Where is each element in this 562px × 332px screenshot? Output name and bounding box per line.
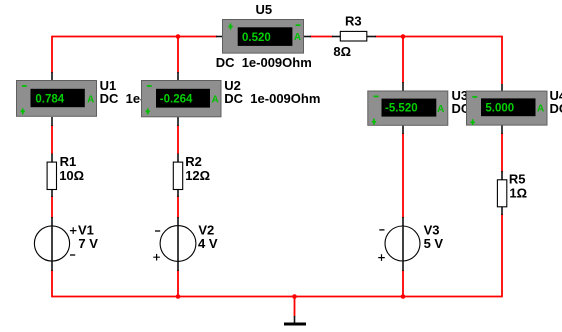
U1 pin lead bottom [51, 117, 53, 126]
V1 minus sign [70, 254, 75, 256]
R1 body [47, 162, 56, 189]
U5 pin lead left [216, 36, 223, 38]
svg-text:8Ω: 8Ω [333, 44, 351, 59]
wire R3 right to node B and corner [375, 36, 502, 38]
V2 pin lead bottom [177, 261, 179, 271]
U4 pin lead top [501, 84, 503, 92]
V1 pin lead top [51, 217, 53, 226]
ammeter U2 [142, 72, 321, 126]
U5 minus mark [296, 24, 301, 26]
svg-text:-0.264: -0.264 [160, 93, 193, 105]
R3 body [340, 31, 367, 41]
R3 pin lead right [366, 36, 376, 38]
svg-text:R2: R2 [185, 154, 202, 169]
R1 pin lead bottom [51, 189, 53, 197]
resistor R1 [47, 154, 84, 198]
U2 display [156, 89, 210, 108]
V3 minus sign [379, 229, 384, 231]
ammeter U1 [17, 72, 196, 126]
U3 plus mark [372, 119, 376, 125]
voltage source V1 [34, 217, 98, 271]
node B junction dot [401, 34, 406, 39]
wire U5 right to R3 left [310, 36, 333, 38]
wire node B down to U3 [402, 37, 404, 84]
svg-text:R3: R3 [345, 14, 362, 29]
V3 center line [402, 226, 404, 261]
bottom rail junction dot below V2 [176, 294, 181, 299]
svg-text:A: A [294, 32, 301, 43]
resistor R3 [332, 14, 376, 59]
U3 minus mark [374, 95, 379, 97]
svg-text:U5: U5 [256, 2, 273, 17]
wire R1 bottom to V1 [51, 196, 53, 218]
wire U2 bottom to R2 [177, 125, 179, 154]
svg-text:1Ω: 1Ω [509, 185, 527, 200]
U4 minus mark [472, 96, 477, 98]
svg-text:0.784: 0.784 [35, 93, 64, 105]
wire ground stub [294, 297, 296, 317]
wire V2 bottom to bottom rail [177, 270, 179, 297]
U4 body [467, 91, 548, 125]
V3 pin lead top [402, 217, 404, 226]
U2 pin lead bottom [177, 117, 179, 126]
U4 pin lead bottom [501, 126, 503, 135]
wire U3 bottom to V3 [402, 133, 404, 218]
V1 circle [34, 226, 69, 261]
V2 pin lead top [177, 217, 179, 226]
U2 minus mark [147, 85, 152, 87]
bottom rail junction dot at ground [292, 294, 297, 299]
U4 display [481, 98, 536, 116]
resistor R5 [497, 171, 527, 215]
bottom rail junction dot below V3 [401, 294, 406, 299]
svg-text:-5.520: -5.520 [385, 103, 418, 115]
svg-text:DC 1e-009Ohm: DC 1e-009Ohm [224, 91, 320, 106]
R3 pin lead left [332, 36, 341, 38]
ammeter U5 [216, 2, 312, 70]
U5 display [238, 27, 293, 46]
resistor R2 [173, 154, 210, 198]
svg-text:A: A [537, 104, 544, 115]
U3 pin lead top [402, 82, 404, 91]
svg-text:A: A [87, 94, 94, 105]
ammeter U3 [368, 82, 548, 134]
U3 display [382, 99, 437, 117]
V3 pin lead bottom [402, 261, 404, 271]
svg-text:DC 1e-009Ohm: DC 1e-009Ohm [216, 55, 312, 70]
R1 pin lead top [51, 154, 53, 164]
svg-text:R1: R1 [60, 154, 77, 169]
V2 center line [177, 226, 179, 262]
svg-text:7 V: 7 V [78, 236, 98, 251]
U5 plus mark [228, 24, 232, 30]
wire R5 bottom to bottom rail [501, 214, 503, 297]
wire from node A down to U2 [177, 37, 179, 74]
wire U1 bottom to R1 [51, 125, 53, 154]
R5 pin lead top [501, 171, 503, 181]
R5 body [497, 180, 506, 207]
svg-text:5 V: 5 V [424, 236, 444, 251]
V1 pin lead bottom [51, 261, 53, 271]
U3 body [368, 91, 448, 125]
ground lead [294, 316, 296, 323]
V1 center line [51, 226, 53, 261]
R2 pin lead bottom [177, 189, 179, 197]
wire top horizontal node A [52, 36, 217, 38]
svg-text:10Ω: 10Ω [59, 168, 84, 183]
U2 body [142, 81, 222, 117]
svg-text:0.520: 0.520 [242, 32, 271, 44]
U2 plus mark [146, 108, 150, 114]
node A junction dot [176, 34, 181, 39]
ground bar [284, 323, 306, 326]
U1 pin lead top [51, 72, 53, 81]
svg-text:A: A [212, 94, 219, 105]
U3 pin lead bottom [402, 126, 404, 135]
svg-text:12Ω: 12Ω [185, 168, 210, 183]
V3 circle [385, 226, 420, 261]
U5 pin lead right [303, 36, 311, 38]
U1 minus mark [22, 85, 27, 87]
voltage source V2 [153, 217, 218, 271]
U1 plus mark [21, 108, 25, 114]
wire corner down to U4 [501, 36, 503, 84]
R5 pin lead bottom [501, 206, 503, 215]
wire V3 bottom to bottom rail [402, 270, 404, 297]
ground [284, 316, 306, 324]
svg-text:A: A [437, 104, 444, 115]
R2 pin lead top [177, 154, 179, 164]
R2 body [173, 162, 182, 189]
svg-text:5.000: 5.000 [485, 103, 514, 115]
ammeter U4 [467, 84, 562, 134]
svg-text:R5: R5 [509, 172, 526, 187]
wire left vertical from node A to U1 [51, 36, 53, 73]
wire R2 bottom to V2 [177, 196, 179, 218]
wire V1 bottom to bottom rail [51, 270, 53, 297]
V1 plus sign [70, 227, 77, 234]
U2 pin lead top [177, 72, 179, 81]
V2 plus sign [153, 254, 160, 261]
svg-text:DC 1e-009Ohm: DC 1e-009Ohm [550, 101, 562, 116]
V3 plus sign [378, 254, 385, 261]
V2 minus sign [155, 230, 160, 232]
U4 plus mark [471, 119, 475, 125]
U1 display [31, 89, 85, 107]
wire U4 bottom to R5 [501, 133, 503, 172]
voltage source V3 [378, 217, 443, 271]
svg-text:4 V: 4 V [198, 236, 218, 251]
V2 circle [160, 226, 196, 262]
U5 body [223, 20, 304, 54]
wire bottom rail [52, 296, 502, 298]
U1 body [17, 81, 97, 117]
